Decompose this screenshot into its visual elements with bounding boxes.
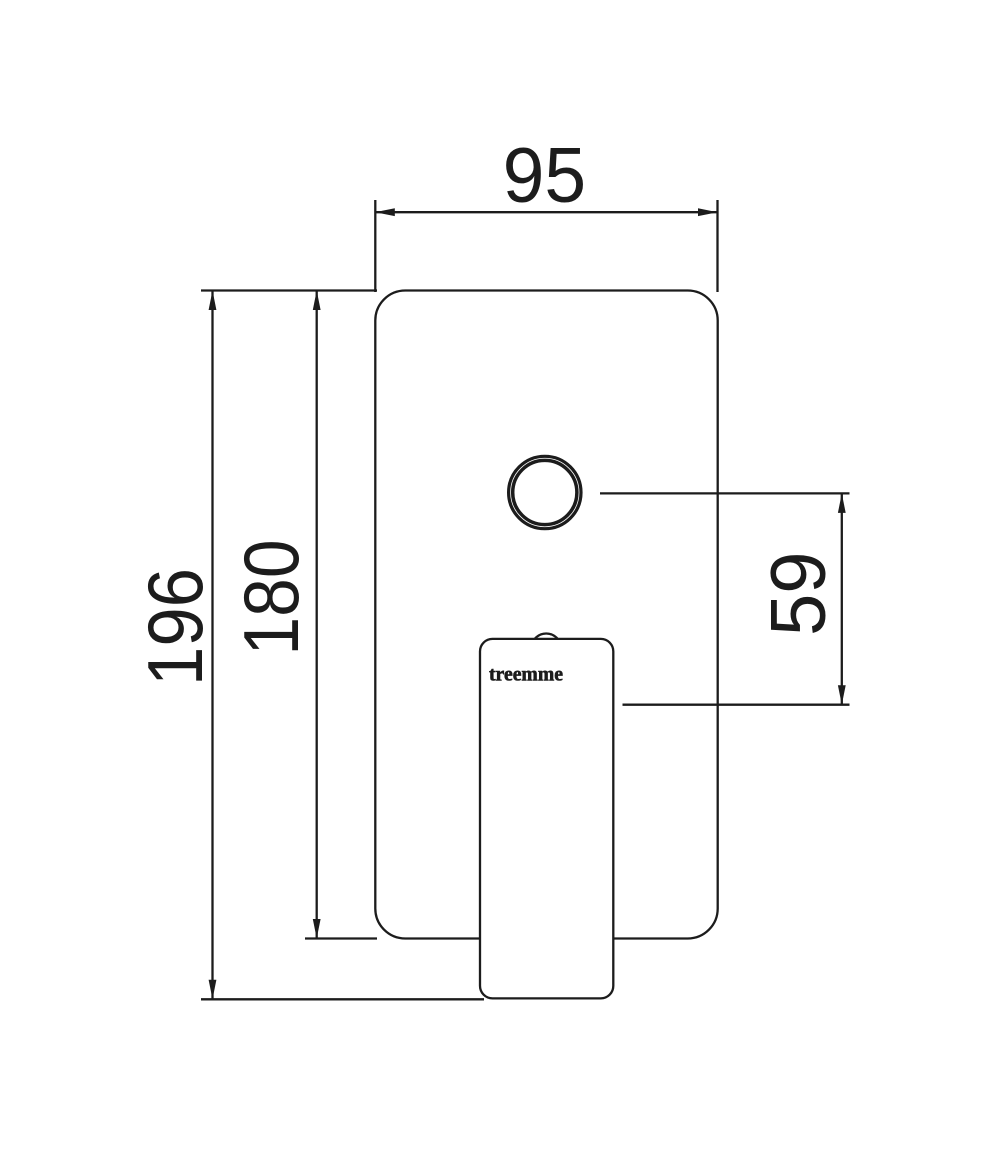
label 59 [754,552,842,637]
extension line top of dim 59 [600,492,850,494]
dimension line 196 [209,291,217,1000]
svg-text:95: 95 [503,131,586,219]
extension line bottom of dim 196 [201,998,484,1000]
svg-text:treemme: treemme [489,664,563,686]
extension line bottom of dim 59 [623,704,850,706]
extension line right of dim 95 [716,200,718,292]
extension line left of dim 95 [374,200,376,292]
svg-text:196: 196 [131,568,219,686]
label 95 [503,131,586,219]
dimension line 180 [313,291,321,939]
svg-text:180: 180 [227,540,315,656]
svg-text:59: 59 [754,552,842,637]
label 196 [131,568,219,686]
dimension line 95 [375,208,717,216]
treemme logo [489,664,563,686]
plate outline [375,291,717,939]
circle (cartridge hole) outer ring [509,456,581,528]
extension line top of dims 196/180 [201,289,377,291]
label 180 [227,540,315,656]
dimension line 59 [838,493,846,704]
handle (lever) [480,639,613,999]
handle screw bump [531,634,561,664]
extension line bottom of dim 180 [305,937,377,939]
circle (cartridge hole) inner ring [513,460,577,524]
